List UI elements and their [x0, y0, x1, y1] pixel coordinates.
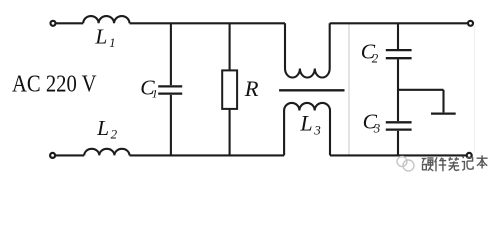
svg-text:L: L	[299, 111, 312, 136]
svg-text:R: R	[244, 76, 259, 101]
svg-text:3: 3	[313, 123, 321, 138]
svg-text:2: 2	[111, 126, 118, 141]
svg-text:1: 1	[109, 36, 115, 50]
svg-text:AC 220 V: AC 220 V	[12, 71, 97, 98]
svg-text:2: 2	[372, 51, 379, 66]
svg-text:L: L	[96, 116, 109, 140]
svg-text:1: 1	[152, 87, 158, 101]
svg-text:L: L	[94, 25, 107, 49]
svg-text:3: 3	[373, 121, 381, 136]
